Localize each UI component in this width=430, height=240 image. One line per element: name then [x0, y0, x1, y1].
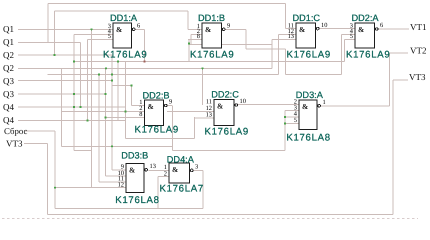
wire DD1:C pin11 stub: [286, 28, 297, 30]
wire DD1:B out: [226, 28, 247, 30]
junction Q3bar/branch: [104, 93, 106, 95]
junction bus/DD1:A out: [143, 60, 145, 62]
wire DD1:C out to DD2:A pin3: [320, 28, 356, 30]
wire DD2:B out line: [172, 149, 285, 151]
svg-text:Q3: Q3: [3, 89, 14, 99]
wire Q1 to DD1:A pin3: [18, 28, 113, 30]
svg-text:DD2:B: DD2:B: [143, 91, 170, 101]
wire DD1:A pin4 riser: [73, 35, 75, 151]
wire VT3 bottom: [48, 214, 393, 216]
wire DD1:A pin4 stub: [74, 34, 113, 36]
wire DD1:B pin2 stub: [191, 34, 202, 36]
junction bus146/DD3:B9 riser: [111, 145, 113, 147]
wire DD3:B pin12 line: [55, 187, 126, 189]
junction DD1:B pin8 riser: [188, 42, 190, 44]
wire riser DD3:A pins: [284, 111, 286, 151]
svg-text:13: 13: [288, 33, 294, 40]
svg-text:6: 6: [380, 22, 383, 29]
svg-text:K176LA8: K176LA8: [115, 195, 159, 206]
wire DD1:B pin1 stub: [188, 28, 202, 30]
wire DD1:A pin5 stub: [88, 38, 114, 40]
gate DD4:A K176LA7: [160, 155, 204, 195]
wire Q2 up leg: [54, 11, 56, 55]
svg-text:VT2: VT2: [410, 46, 427, 56]
wire DD3:B pin9 stub: [112, 169, 126, 171]
gate DD3:B K176LA8: [115, 151, 159, 207]
svg-text:&: &: [172, 165, 178, 174]
wire DD1:A pin5 riser: [87, 39, 89, 120]
gate DD2:C K176LA9: [205, 90, 249, 138]
wire riser DD3:B pin11: [98, 75, 100, 182]
junction DD2:B pin2/Q4: [124, 110, 126, 112]
svg-text:1: 1: [323, 99, 326, 106]
svg-text:VT1: VT1: [410, 22, 427, 32]
gate DD2:B K176LA9: [135, 91, 179, 136]
svg-text:K176LA8: K176LA8: [286, 133, 330, 144]
gate DD1:A K176LA9: [103, 13, 147, 60]
svg-text:DD1:B: DD1:B: [198, 13, 225, 23]
svg-text:&: &: [358, 25, 364, 34]
svg-text:5: 5: [350, 33, 353, 40]
wire DD2:B out: [166, 105, 173, 107]
svg-text:VT3: VT3: [6, 139, 23, 149]
junction bus/pin4: [73, 60, 75, 62]
wire bus2 to DD2:A pin4: [286, 73, 342, 75]
gate DD2:A K176LA9: [346, 13, 390, 60]
wire Q1bar down to DD1:C pin11: [285, 4, 287, 29]
wire Q2 top: [55, 10, 189, 12]
junction DD2:B pin8/riser: [104, 116, 106, 118]
wire DD4:A pin2 stub: [158, 176, 169, 178]
frame bottom dashed border: [2, 218, 418, 220]
svg-text:Q2: Q2: [3, 50, 14, 60]
wire Q1bar: [18, 41, 81, 43]
junction bus94/pin4 riser: [73, 93, 75, 95]
wire VT2 riser: [389, 53, 391, 106]
wire Q3 riser to DD2:A pin4: [341, 35, 343, 75]
svg-text:DD3:B: DD3:B: [121, 151, 148, 161]
wire net DD2:C13: [126, 138, 195, 140]
wire Q4: [18, 106, 125, 108]
svg-text:DD3:A: DD3:A: [296, 90, 324, 100]
wire DD4:A out down: [202, 170, 204, 208]
wire DD1:C pin12 stub: [279, 34, 297, 36]
wire net to DD2:B pin1: [112, 85, 132, 87]
wire DD3:B pin11 stub: [99, 181, 126, 183]
wire Q1bar down leg: [80, 42, 82, 107]
svg-text:K176LA7: K176LA7: [160, 184, 204, 195]
wire Q4 riser long: [125, 62, 127, 139]
junction DD3:A pin5: [284, 122, 286, 124]
wire VT3 riser: [392, 80, 394, 215]
svg-text:12: 12: [118, 181, 124, 188]
wire DD3:A out: [319, 105, 390, 107]
svg-text:13: 13: [206, 112, 212, 119]
svg-text:5: 5: [294, 117, 297, 124]
svg-text:Q3: Q3: [3, 76, 14, 86]
wire DD2:A pin5 stub: [345, 38, 356, 40]
wire net DD1:B8 DD1:C13: [189, 44, 272, 46]
wire Cbros label: [25, 130, 55, 132]
svg-text:10: 10: [240, 98, 246, 105]
junction Q3/Q2branch: [111, 74, 113, 76]
svg-text:&: &: [217, 102, 223, 111]
junction Q2bar/DD2:C pin11: [201, 67, 203, 69]
svg-text:6: 6: [137, 23, 140, 30]
wire Q4bar: [18, 120, 126, 122]
svg-text:Q1: Q1: [3, 24, 14, 34]
wire VT3 stub right: [393, 79, 408, 81]
wire Q1bar top: [48, 3, 286, 5]
svg-text:Q4: Q4: [3, 115, 14, 125]
wire DD1:C pin13 stub: [272, 38, 296, 40]
wire Q2 branch down: [111, 55, 113, 170]
svg-text:VT3: VT3: [409, 72, 426, 82]
svg-text:K176LA9: K176LA9: [135, 125, 179, 136]
wire VT2 stub: [390, 52, 409, 54]
wire DD2:C pin13 riser: [194, 117, 196, 138]
wire DD1:B out down: [245, 29, 247, 49]
wire Q2: [18, 54, 113, 56]
wire DD2:C pin12 line: [167, 110, 214, 112]
svg-text:DD1:A: DD1:A: [110, 13, 138, 23]
wire VT3 label: [24, 143, 48, 145]
wire DD2:C pin11 riser: [202, 68, 204, 105]
wire Q2bar branch long: [105, 68, 107, 176]
svg-text:13: 13: [150, 163, 156, 170]
svg-text:&: &: [129, 166, 135, 175]
wire DD3:A pin5 stub: [285, 123, 299, 125]
junction Q3label/branch: [111, 79, 113, 81]
wire DD2:C pin13 stub: [195, 117, 214, 119]
svg-text:DD2:A: DD2:A: [352, 13, 380, 23]
wire DD2:A pin5 drop: [344, 39, 346, 61]
junction Q2bar/DD2:B pin8: [105, 67, 107, 69]
wire DD1:A out: [136, 28, 145, 30]
wire zigzag: [74, 149, 92, 151]
svg-text:9: 9: [227, 23, 230, 30]
svg-text:K176LA9: K176LA9: [287, 49, 331, 60]
wire DD1:B pin8 drop: [188, 39, 190, 61]
wire DD1:B pin8 stub: [188, 38, 202, 40]
wire Q2 top down leg: [187, 11, 189, 29]
svg-text:8: 8: [139, 111, 142, 118]
svg-text:DD4:A: DD4:A: [167, 155, 195, 165]
wire Q1bar up leg: [47, 4, 49, 43]
junction Q4/pin4 riser: [73, 106, 75, 108]
wire DD2:B pin8 line: [106, 117, 145, 119]
junction Q4/Q1bar leg: [79, 106, 81, 108]
svg-text:Q1: Q1: [3, 37, 14, 47]
wire DD3:A pin4 stub: [285, 116, 299, 118]
svg-text:Q2: Q2: [3, 63, 14, 73]
gate DD1:B K176LA9: [190, 13, 234, 60]
wire DD2:A pin4 stub: [342, 34, 356, 36]
junction bus/DD2:C13 riser: [117, 60, 119, 62]
wire drop bus to Q4bar: [117, 62, 119, 121]
wire DD2:B pin2 line: [62, 111, 145, 113]
wire bus y61: [74, 61, 345, 63]
wire DD3:A pin3 stub: [285, 110, 299, 112]
svg-text:2: 2: [164, 170, 167, 177]
wire DD4:A out: [193, 169, 203, 171]
svg-text:&: &: [299, 25, 305, 34]
junction Q4bar/pin5 riser: [86, 119, 88, 121]
wire Q3: [18, 80, 112, 82]
wire DD1:B out bus: [246, 48, 286, 50]
svg-text:K176LA9: K176LA9: [190, 49, 234, 60]
svg-text:Сброс: Сброс: [4, 126, 27, 136]
svg-text:10: 10: [321, 22, 327, 29]
junction Q3/DD3B11 riser: [98, 74, 100, 76]
wire DD2:C out to DD3:A pin2: [236, 104, 299, 106]
wire VT3 left down leg: [47, 144, 49, 215]
junction Cbros/DD3:B pin12: [54, 187, 56, 189]
svg-text:K176LA9: K176LA9: [103, 49, 147, 60]
svg-text:K176LA9: K176LA9: [205, 127, 249, 138]
wire Q3bar: [18, 93, 106, 95]
gate DD3:A K176LA8: [286, 90, 330, 144]
svg-text:K176LA9: K176LA9: [346, 49, 390, 60]
wire DD3:B pin10 stub: [106, 175, 127, 177]
wire Q2bar: [18, 67, 272, 69]
junction net85/DD2:B1: [130, 84, 132, 86]
gate DD1:C K176LA9: [287, 13, 331, 60]
wire Q3 bus: [48, 74, 279, 76]
wire DD1:C pin13 drop: [271, 39, 273, 68]
wire DD2:B pin1 stub: [132, 105, 145, 107]
svg-text:DD1:C: DD1:C: [293, 13, 321, 23]
wire DD3:B out to DD4:A pin1: [149, 169, 170, 171]
wire DD4:A pin2 down leg: [157, 177, 159, 209]
junction Q2 top: [53, 54, 55, 56]
wire Cbros bottom: [55, 208, 203, 210]
svg-text:&: &: [116, 25, 122, 34]
wire bus y146: [62, 145, 173, 147]
svg-text:Q4: Q4: [3, 102, 14, 112]
svg-text:&: &: [302, 102, 308, 111]
wire DD1:A out down: [144, 29, 146, 61]
wire DD1:B bus drop: [285, 49, 287, 74]
wire riser DD2:B pin1: [131, 86, 133, 106]
wire DD1:B pin2 drop: [190, 35, 192, 45]
wire Q2bar branch down: [61, 68, 63, 146]
svg-text:&: &: [205, 25, 211, 34]
wire Q3 riser to DD1:C pin12: [278, 35, 280, 75]
junction Q1/pin5 branch: [90, 28, 92, 30]
svg-text:3: 3: [195, 164, 198, 171]
svg-text:&: &: [148, 102, 154, 111]
wire Q1 branch down: [91, 29, 93, 187]
junction DD3:A pin4: [284, 116, 286, 118]
wire DD2:B out down: [171, 106, 173, 151]
wire Cbros down leg: [54, 131, 56, 209]
svg-text:8: 8: [197, 33, 200, 40]
svg-text:DD2:C: DD2:C: [211, 90, 239, 100]
svg-text:5: 5: [108, 33, 111, 40]
wire DD2:A out to VT1: [379, 28, 410, 30]
